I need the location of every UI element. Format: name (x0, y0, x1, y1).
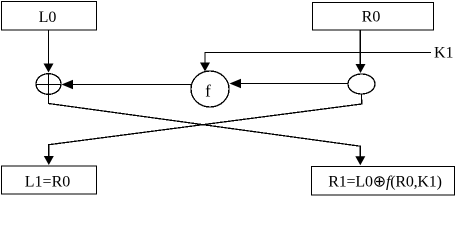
svg-text:L0: L0 (39, 9, 57, 26)
svg-text:R0: R0 (362, 9, 381, 26)
svg-text:K1: K1 (434, 45, 454, 62)
svg-text:L1=R0: L1=R0 (25, 174, 70, 191)
svg-text:f: f (205, 82, 211, 101)
svg-text:R1=L0⊕f(R0,K1): R1=L0⊕f(R0,K1) (328, 174, 441, 191)
